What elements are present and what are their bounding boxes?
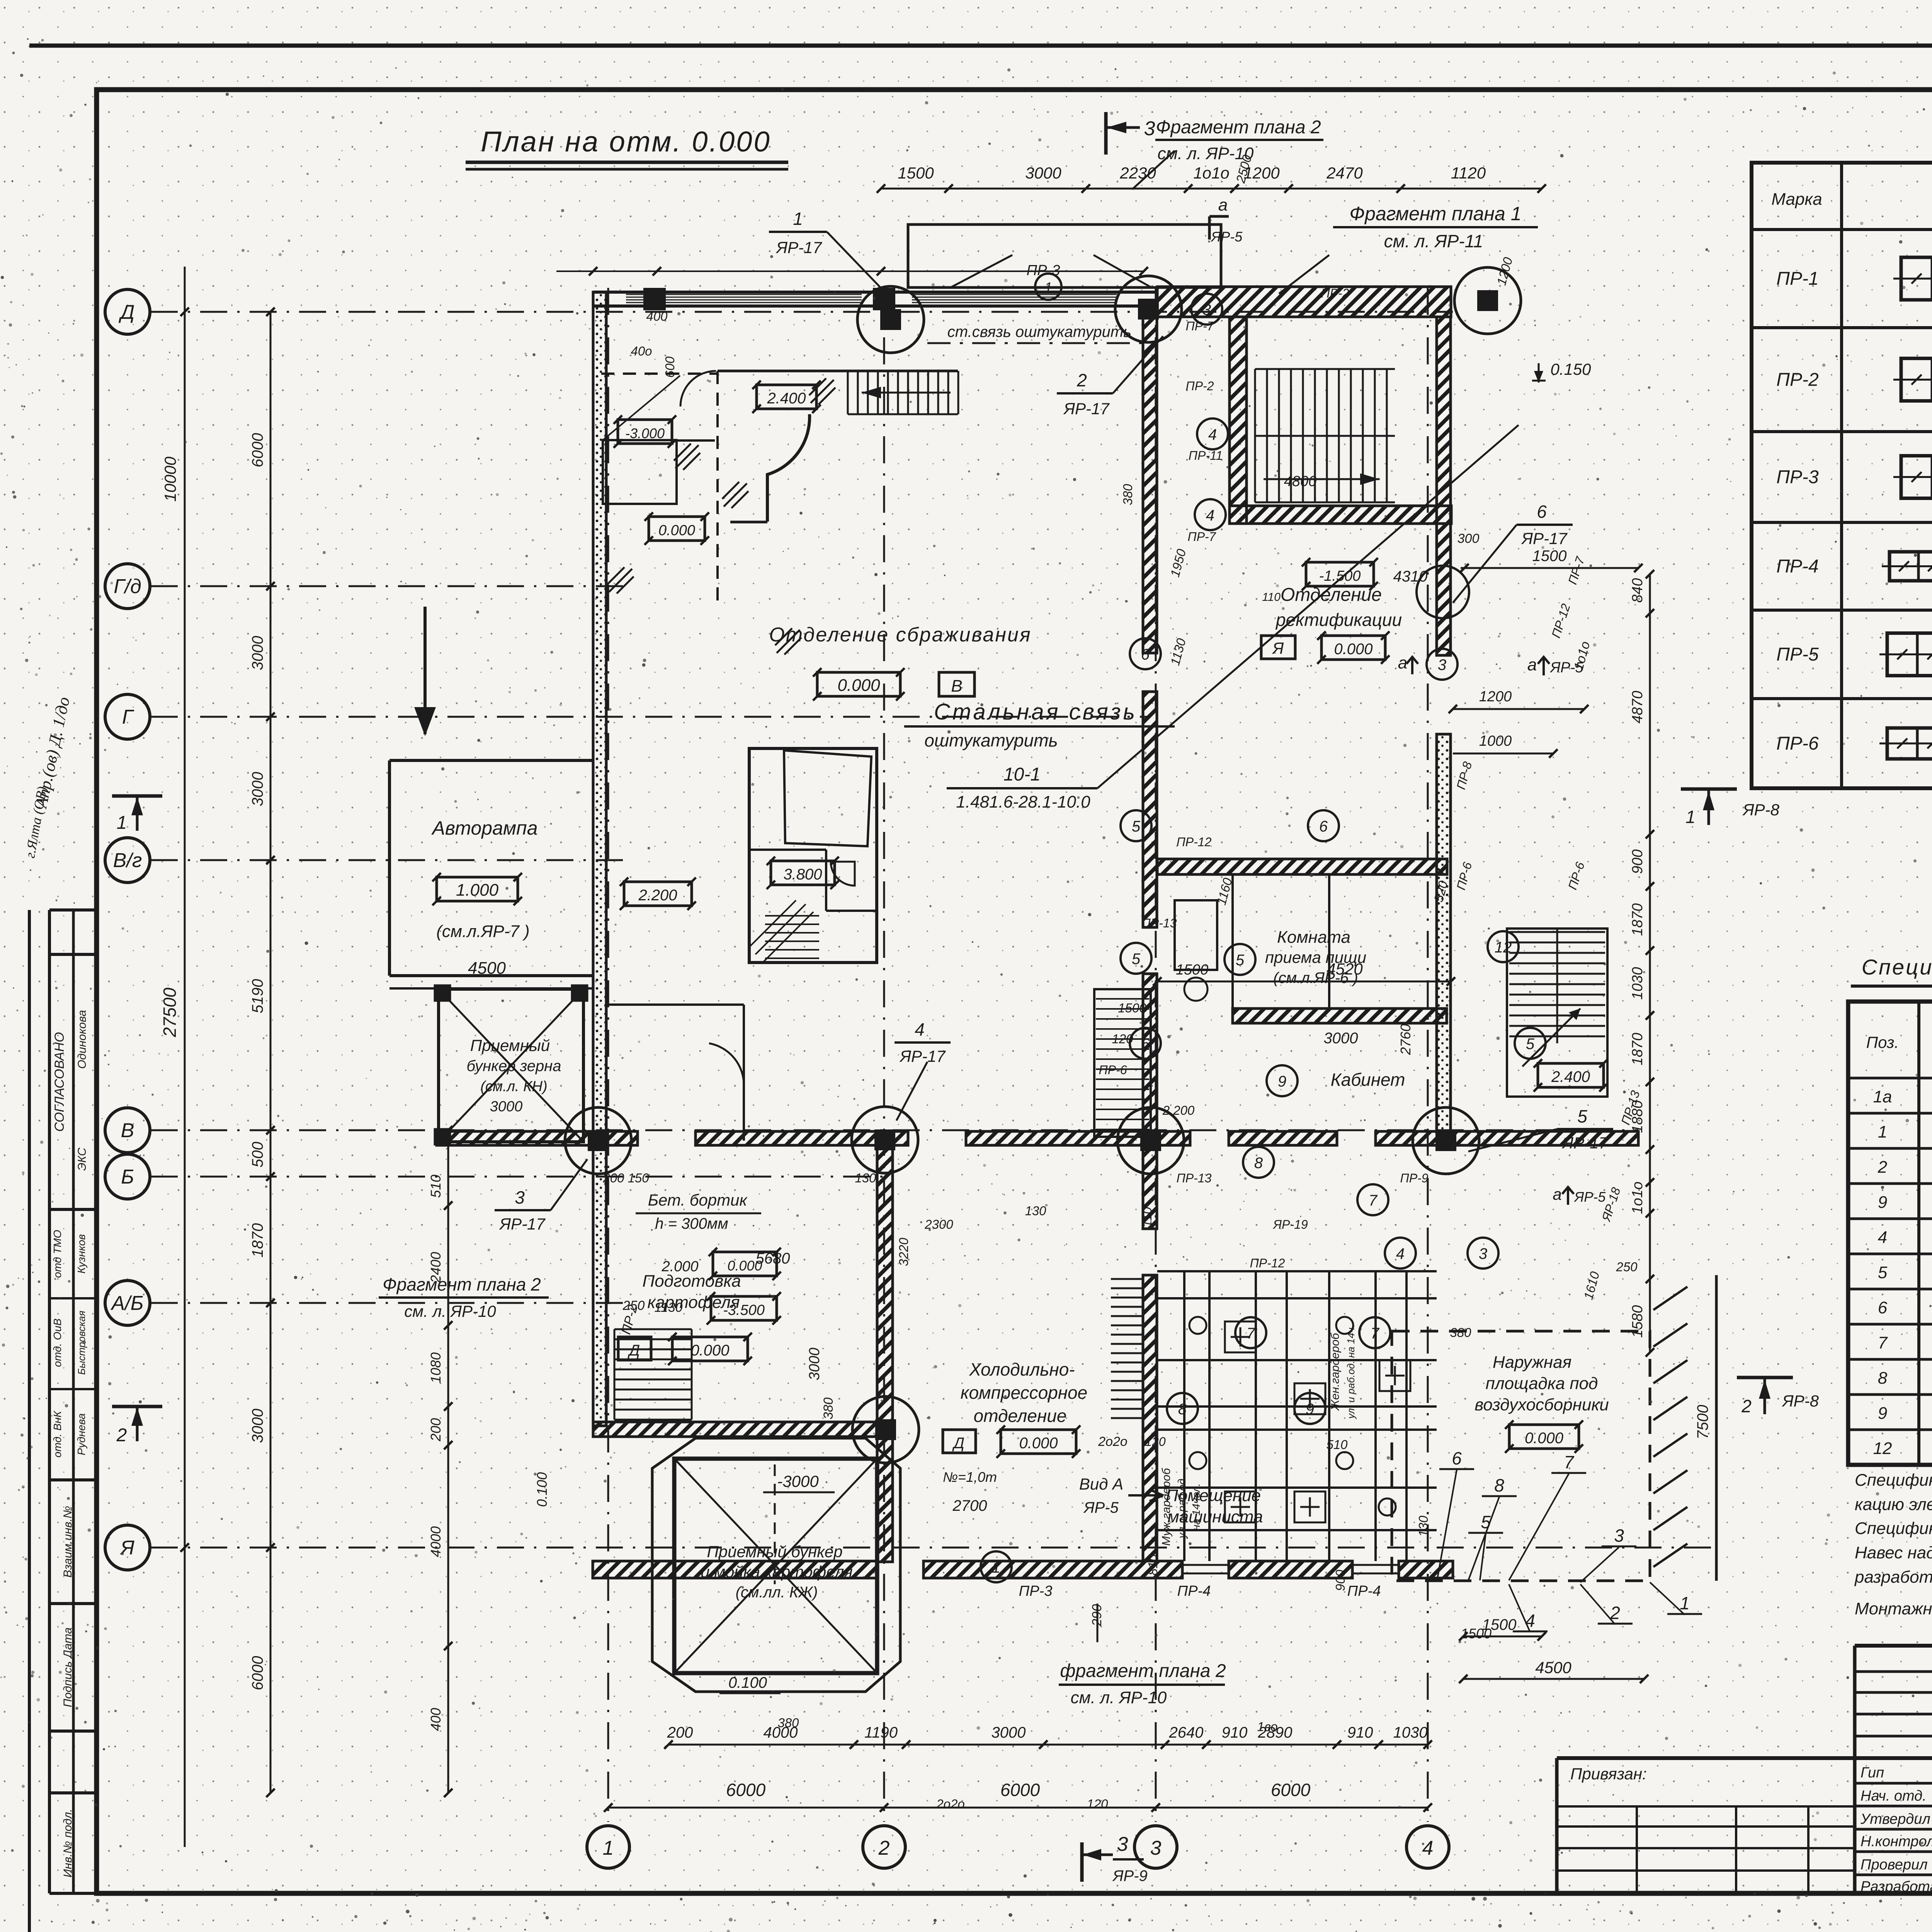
svg-text:130: 130 <box>1416 1515 1430 1537</box>
svg-text:4: 4 <box>915 1019 925 1039</box>
level box 2.400 (right stair) <box>1534 1059 1608 1092</box>
svg-text:6000: 6000 <box>249 1656 266 1690</box>
level box -3.000 <box>614 415 676 448</box>
bottom 1500 dim <box>1459 1616 1546 1641</box>
svg-text:5: 5 <box>1577 1106 1587 1126</box>
svg-text:разработан на листах марки: разработан на листах марки КМ. <box>1854 1568 1932 1587</box>
svg-text:200 150: 200 150 <box>602 1171 649 1185</box>
entrance canopy <box>908 224 1221 300</box>
svg-text:-3.500: -3.500 <box>723 1302 765 1318</box>
svg-text:1580: 1580 <box>1629 1305 1646 1338</box>
svg-text:2о2о: 2о2о <box>936 1797 964 1811</box>
svg-text:Фрагмент плана 2: Фрагмент плана 2 <box>383 1274 541 1294</box>
svg-text:-1.500: -1.500 <box>1319 568 1361 584</box>
small circled reference numbers <box>981 294 1546 1582</box>
svg-text:-3.000: -3.000 <box>625 425 665 441</box>
stamp rotated labels <box>51 1010 88 1878</box>
level mark 0.150 <box>1532 360 1591 383</box>
potato bunker outline <box>652 1438 900 1692</box>
svg-text:1.000: 1.000 <box>456 881 499 900</box>
room letter Я box <box>1261 636 1295 659</box>
svg-text:4310: 4310 <box>1393 568 1428 585</box>
svg-text:380: 380 <box>821 1398 836 1420</box>
svg-text:ПР-2: ПР-2 <box>1186 379 1214 393</box>
svg-text:ПР-6: ПР-6 <box>1776 733 1819 754</box>
svg-text:6: 6 <box>1452 1448 1462 1468</box>
svg-text:(см.л.ЯР-7 ): (см.л.ЯР-7 ) <box>436 922 529 941</box>
svg-text:120: 120 <box>1145 1435 1166 1449</box>
svg-text:В: В <box>121 1119 134 1142</box>
dims 1200 1000 right of plan <box>1449 689 1588 891</box>
detail circles at wall junctions <box>565 267 1521 1463</box>
locker fixtures <box>1189 1317 1410 1522</box>
level box 2.200 <box>620 878 696 910</box>
svg-text:3: 3 <box>1479 1245 1487 1262</box>
svg-text:1во: 1во <box>1257 1719 1277 1734</box>
svg-text:h = 300мм: h = 300мм <box>655 1215 728 1232</box>
svg-text:380: 380 <box>777 1716 799 1730</box>
svg-text:120: 120 <box>1087 1797 1108 1811</box>
svg-text:Д: Д <box>628 1342 640 1359</box>
stairwell top wall <box>1157 287 1451 317</box>
svg-text:ЯР-5: ЯР-5 <box>1574 1189 1606 1205</box>
svg-text:ПР-3: ПР-3 <box>1019 1583 1053 1599</box>
svg-text:Жен.гардероб: Жен.гардероб <box>1329 1333 1342 1412</box>
fragment plan 2 label (bottom) <box>1059 1661 1226 1707</box>
svg-text:Приемный: Приемный <box>470 1036 550 1054</box>
svg-text:9: 9 <box>1278 1073 1286 1090</box>
scattered small dims <box>602 153 1638 1811</box>
dim 1500 right of stairwell <box>1460 548 1643 572</box>
svg-text:7: 7 <box>1369 1192 1378 1209</box>
steel tie note (big) <box>904 699 1175 750</box>
refrigeration notes <box>943 1469 1163 1516</box>
svg-text:ПР-7: ПР-7 <box>1188 530 1216 544</box>
svg-text:Гип: Гип <box>1861 1765 1884 1781</box>
marker a ЯР-5 (lower) <box>1553 1185 1606 1205</box>
svg-text:Спецификацию гардеробного об: Спецификацию гардеробного оборудования с… <box>1855 1471 1932 1490</box>
svg-text:1120: 1120 <box>1451 164 1486 182</box>
svg-text:6000: 6000 <box>726 1780 766 1800</box>
title block: revision table <box>1855 1646 1932 1758</box>
svg-text:2.400: 2.400 <box>1551 1068 1590 1085</box>
svg-text:5: 5 <box>1132 818 1141 835</box>
svg-text:Руднева: Руднева <box>75 1413 87 1456</box>
svg-text:0.100: 0.100 <box>728 1674 767 1691</box>
axis circle 3 (bottom) <box>1134 1826 1177 1868</box>
svg-text:400: 400 <box>646 309 668 323</box>
svg-text:Утвердил: Утвердил <box>1860 1811 1930 1827</box>
section marker 2 ЯР-8 <box>1737 1378 1819 1416</box>
svg-text:10-1: 10-1 <box>1003 764 1041 785</box>
section marker 3 (top) <box>1106 112 1155 155</box>
top-left room block <box>601 371 958 603</box>
svg-text:воздухосборники: воздухосборники <box>1475 1395 1609 1414</box>
svg-text:ЯР-17: ЯР-17 <box>1521 529 1568 548</box>
svg-text:компрессорное: компрессорное <box>961 1383 1087 1403</box>
svg-text:7500: 7500 <box>1694 1405 1711 1439</box>
plan title <box>466 126 788 169</box>
locker block partitions <box>1157 1271 1437 1561</box>
svg-text:1870: 1870 <box>1629 903 1646 936</box>
section marker 1 ЯР-8 <box>1681 789 1780 827</box>
title block: names table <box>1855 1758 1932 1895</box>
svg-text:1: 1 <box>603 1837 614 1859</box>
svg-text:оштукатурить: оштукатурить <box>924 730 1058 750</box>
svg-text:6: 6 <box>1319 818 1328 835</box>
svg-text:-3000: -3000 <box>777 1472 819 1490</box>
svg-text:3000: 3000 <box>249 772 266 806</box>
room label: potato prep <box>642 1272 741 1312</box>
svg-text:Г/д: Г/д <box>114 575 141 598</box>
svg-text:1: 1 <box>1685 807 1696 827</box>
svg-text:1: 1 <box>793 209 803 229</box>
svg-text:Вид А: Вид А <box>1079 1475 1123 1493</box>
svg-text:900: 900 <box>1629 849 1646 874</box>
svg-text:3: 3 <box>1144 117 1155 140</box>
svg-text:0.000: 0.000 <box>1525 1430 1563 1447</box>
svg-text:0.000: 0.000 <box>690 1342 729 1359</box>
svg-text:3: 3 <box>515 1187 525 1207</box>
left exterior wall <box>593 292 606 1141</box>
svg-text:3: 3 <box>1438 656 1446 673</box>
svg-text:Я: Я <box>119 1537 134 1559</box>
dining room top wall <box>1157 859 1447 874</box>
svg-text:4500: 4500 <box>1535 1658 1571 1677</box>
specification table <box>1848 1002 1932 1465</box>
svg-text:Авторампа: Авторампа <box>431 817 538 839</box>
svg-text:8: 8 <box>1254 1155 1263 1172</box>
svg-text:Инв.№ подл.: Инв.№ подл. <box>61 1809 74 1878</box>
svg-text:Наружная: Наружная <box>1493 1353 1571 1372</box>
axis circle Д <box>105 289 150 334</box>
svg-text:Поз.: Поз. <box>1866 1033 1899 1051</box>
svg-text:1: 1 <box>117 813 127 833</box>
svg-text:6: 6 <box>1141 1036 1150 1053</box>
svg-text:Разработал: Разработал <box>1861 1879 1932 1895</box>
svg-text:ПР-7: ПР-7 <box>1186 319 1214 333</box>
left outer dimension line <box>160 267 189 1847</box>
svg-text:Подпись Дата: Подпись Дата <box>61 1628 74 1707</box>
partition line below hall <box>607 1003 744 1006</box>
svg-text:3: 3 <box>1150 1837 1162 1859</box>
paper left edge line <box>28 910 31 1932</box>
svg-text:1500: 1500 <box>1176 962 1209 978</box>
axis circle 1 (bottom) <box>587 1826 629 1868</box>
svg-text:8: 8 <box>1494 1475 1504 1495</box>
svg-text:0.000: 0.000 <box>837 676 880 695</box>
paper top edge line <box>29 44 1932 48</box>
svg-text:810: 810 <box>1146 1554 1160 1576</box>
autoramp outline <box>389 760 593 988</box>
svg-text:1: 1 <box>1878 1122 1887 1141</box>
svg-text:6000: 6000 <box>1000 1780 1040 1800</box>
bottom-left stair <box>614 1329 692 1420</box>
lab small stair <box>750 900 819 962</box>
svg-text:Монтажные схемы окон и кре: Монтажные схемы окон и крепежные элемент… <box>1855 1599 1932 1618</box>
svg-text:300: 300 <box>1458 531 1480 546</box>
hatch cross marks <box>607 378 835 655</box>
room label: refrigeration <box>961 1359 1087 1426</box>
level box 1.000 autoramp <box>432 873 522 905</box>
bottom dimension chain (axes) <box>604 1780 1432 1812</box>
title block outline <box>1557 1646 1932 1893</box>
platform hatch strip <box>1653 1275 1716 1581</box>
callout 4 ЯР-17 <box>895 1019 951 1121</box>
svg-text:1500: 1500 <box>1482 1616 1517 1633</box>
right exterior wall upper <box>1437 317 1451 655</box>
dims 4520/1500 <box>1153 960 1455 1055</box>
svg-text:СОГЛАСОВАНО: СОГЛАСОВАНО <box>52 1032 67 1132</box>
svg-text:А/Б: А/Б <box>111 1292 144 1315</box>
svg-text:9: 9 <box>1306 1401 1314 1418</box>
svg-text:ПР-13: ПР-13 <box>1177 1171 1212 1185</box>
svg-text:Взаим.инв.№: Взаим.инв.№ <box>61 1506 74 1578</box>
axis-B wall <box>437 1131 1638 1145</box>
svg-text:Спецификацию перемычек см.: Спецификацию перемычек см. л. ЯР-5 <box>1855 1519 1932 1538</box>
axis-A bottom wall <box>593 1561 1453 1578</box>
svg-text:0.000: 0.000 <box>658 522 695 539</box>
svg-text:Б: Б <box>121 1166 134 1188</box>
svg-text:2700: 2700 <box>952 1497 987 1514</box>
svg-text:№=1,0т: №=1,0т <box>943 1469 997 1485</box>
svg-text:ЯР-8: ЯР-8 <box>1782 1392 1819 1410</box>
svg-text:Фрагмент плана 2: Фрагмент плана 2 <box>1156 117 1321 138</box>
section marker 1 (left) <box>112 796 162 833</box>
callout 3 ЯР-17 <box>495 1159 587 1233</box>
svg-text:27500: 27500 <box>160 988 180 1037</box>
svg-text:3.800: 3.800 <box>783 866 822 883</box>
svg-text:отд ТМО: отд ТМО <box>51 1230 63 1278</box>
svg-text:3: 3 <box>1202 301 1211 318</box>
svg-text:510: 510 <box>1326 1437 1348 1452</box>
svg-text:0.150: 0.150 <box>1550 360 1591 378</box>
room label: autoramp <box>431 817 538 839</box>
svg-text:4: 4 <box>1878 1228 1887 1247</box>
svg-text:7: 7 <box>1564 1452 1574 1472</box>
axis circle Б <box>105 1154 150 1199</box>
svg-text:5190: 5190 <box>249 979 266 1014</box>
svg-text:а: а <box>1527 655 1537 674</box>
potato prep level boxes <box>618 1333 752 1365</box>
svg-text:8: 8 <box>1178 1401 1187 1418</box>
svg-text:ПР-2: ПР-2 <box>1776 370 1818 390</box>
svg-text:Проверил: Проверил <box>1861 1857 1928 1873</box>
svg-text:1500: 1500 <box>1532 548 1567 565</box>
svg-text:4: 4 <box>1208 426 1217 443</box>
stairwell stairs <box>1255 369 1395 502</box>
svg-text:Комната: Комната <box>1277 928 1350 947</box>
svg-text:Д: Д <box>952 1435 964 1452</box>
bottom 4500 dim <box>1459 1658 1648 1683</box>
steel tie note (top) <box>927 323 1151 343</box>
platform level box <box>1505 1420 1583 1453</box>
stairwell walls <box>1230 317 1451 524</box>
svg-text:3000: 3000 <box>249 1409 266 1443</box>
svg-text:2о2о: 2о2о <box>1098 1434 1128 1449</box>
svg-text:см. л. ЯР-11: см. л. ЯР-11 <box>1384 231 1483 251</box>
svg-text:3: 3 <box>1117 1833 1128 1855</box>
svg-text:380: 380 <box>1450 1325 1471 1340</box>
svg-text:на 14чел.: на 14чел. <box>1190 1483 1202 1531</box>
stair left of axis-3 <box>1094 989 1151 1137</box>
svg-text:1870: 1870 <box>1629 1033 1646 1066</box>
svg-text:3000: 3000 <box>490 1099 523 1115</box>
svg-text:2760: 2760 <box>1398 1024 1413 1055</box>
svg-text:130: 130 <box>855 1171 876 1185</box>
svg-text:250: 250 <box>1616 1260 1638 1274</box>
svg-text:4: 4 <box>1525 1611 1535 1631</box>
svg-text:1030: 1030 <box>1393 1724 1428 1741</box>
svg-text:ЯР-17: ЯР-17 <box>776 238 822 257</box>
svg-text:ПР-4: ПР-4 <box>1347 1583 1381 1599</box>
svg-text:5: 5 <box>1132 951 1141 968</box>
svg-text:Д: Д <box>119 301 135 323</box>
svg-text:Фрагмент плана 1: Фрагмент плана 1 <box>1349 203 1521 224</box>
ПР micro labels <box>1099 286 1643 1270</box>
svg-text:400: 400 <box>428 1708 444 1731</box>
svg-text:отд. ВнК: отд. ВнК <box>51 1410 63 1458</box>
svg-text:отделение: отделение <box>974 1406 1067 1426</box>
svg-text:В/г: В/г <box>113 849 142 872</box>
svg-text:1: 1 <box>1044 279 1052 295</box>
locker rotated labels <box>1160 1325 1357 1546</box>
svg-text:а: а <box>1553 1185 1561 1203</box>
svg-text:ЭКС: ЭКС <box>76 1148 88 1171</box>
svg-text:5680: 5680 <box>756 1250 790 1267</box>
svg-text:3: 3 <box>1614 1526 1624 1546</box>
axis circle 4 (bottom) <box>1406 1826 1449 1868</box>
svg-text:фрагмент плана 2: фрагмент плана 2 <box>1060 1661 1226 1681</box>
level box 3.800 <box>767 857 839 889</box>
svg-text:10000: 10000 <box>161 456 179 502</box>
svg-text:40о: 40о <box>631 344 652 358</box>
svg-text:3220: 3220 <box>896 1238 911 1266</box>
svg-text:ПР-11: ПР-11 <box>1189 449 1223 463</box>
svg-text:130: 130 <box>1025 1204 1046 1218</box>
potato bunker levels <box>534 1472 835 1693</box>
svg-text:1: 1 <box>1680 1593 1690 1613</box>
svg-text:Кабинет: Кабинет <box>1331 1070 1405 1090</box>
svg-text:1000: 1000 <box>1479 733 1512 749</box>
svg-text:Нач. отд.: Нач. отд. <box>1861 1788 1927 1804</box>
svg-text:7: 7 <box>1878 1333 1888 1352</box>
svg-text:ЯР-17: ЯР-17 <box>1063 400 1110 418</box>
bottom dimension chain (detail) <box>664 1724 1432 1749</box>
svg-text:4: 4 <box>1206 507 1214 524</box>
svg-text:ул. и раб.од. на 14ч.: ул. и раб.од. на 14ч. <box>1345 1325 1357 1419</box>
svg-text:Привязан:: Привязан: <box>1570 1765 1647 1783</box>
svg-text:2: 2 <box>1077 370 1087 390</box>
svg-text:ПР-2: ПР-2 <box>1321 286 1349 300</box>
top-left stair <box>848 371 958 414</box>
level box 2.400 <box>752 381 821 413</box>
svg-text:5: 5 <box>1878 1263 1888 1282</box>
svg-text:2.200: 2.200 <box>638 887 677 904</box>
svg-text:2: 2 <box>1878 1158 1887 1177</box>
callout 6 ЯР-17 <box>1417 502 1573 618</box>
svg-text:ЯР-8: ЯР-8 <box>1742 801 1780 819</box>
svg-text:500: 500 <box>249 1142 266 1168</box>
room label: dining room <box>1265 928 1366 986</box>
svg-text:Марка: Марка <box>1771 190 1822 209</box>
left wall lower (potato prep) <box>593 1145 606 1426</box>
svg-text:ст.связь оштукатурить: ст.связь оштукатурить <box>947 323 1131 340</box>
svg-text:3000: 3000 <box>249 636 266 670</box>
top dimension chain <box>877 164 1546 193</box>
svg-text:ПР-12: ПР-12 <box>1250 1256 1285 1270</box>
svg-text:2300: 2300 <box>924 1217 953 1231</box>
top exterior wall <box>556 267 1157 309</box>
svg-text:4870: 4870 <box>1629 691 1646 724</box>
svg-text:Отделение сбраживания: Отделение сбраживания <box>769 624 1031 646</box>
svg-text:отд. ОиВ: отд. ОиВ <box>51 1318 63 1367</box>
level box 0.000 (top-left) <box>645 512 709 545</box>
svg-text:см. л. ЯР-10: см. л. ЯР-10 <box>1071 1688 1167 1707</box>
axis circle В <box>105 1108 150 1153</box>
svg-text:площадка под: площадка под <box>1486 1374 1598 1393</box>
svg-text:ЯР-17: ЯР-17 <box>899 1047 946 1065</box>
room label: grain bunker <box>466 1036 561 1115</box>
section marker 2 (left) <box>112 1406 162 1446</box>
svg-text:Бет. бортик: Бет. бортик <box>648 1191 748 1209</box>
grain bunker square <box>435 985 587 1145</box>
svg-text:План на отм. 0.000: План на отм. 0.000 <box>481 126 771 158</box>
svg-text:4800: 4800 <box>1284 473 1317 490</box>
svg-text:4000: 4000 <box>428 1526 444 1557</box>
svg-text:7: 7 <box>1371 1325 1380 1342</box>
left margin stamp table <box>49 910 97 1893</box>
svg-text:2.400: 2.400 <box>767 390 806 407</box>
svg-text:а: а <box>1218 196 1228 214</box>
svg-text:1: 1 <box>992 1559 1000 1576</box>
svg-text:0.000: 0.000 <box>1334 641 1372 658</box>
svg-text:Г: Г <box>122 706 134 728</box>
level box -1.500 and 4310 dim <box>1262 558 1427 604</box>
room letter B box <box>939 672 975 696</box>
svg-text:ЯР-5: ЯР-5 <box>1083 1499 1119 1516</box>
svg-text:910: 910 <box>1347 1724 1373 1741</box>
marker a ЯР-5 (top) <box>1209 196 1243 245</box>
mid room block (lab) <box>749 748 877 963</box>
svg-text:6: 6 <box>1141 646 1150 663</box>
level box 0.000 fermentation <box>813 668 905 701</box>
room label: outdoor platform <box>1475 1353 1609 1414</box>
svg-text:ЯР-9: ЯР-9 <box>1112 1867 1148 1884</box>
svg-text:2.000: 2.000 <box>661 1259 698 1275</box>
fragment plan 2 label (left) <box>379 1274 549 1320</box>
axis circle В/г <box>105 838 150 883</box>
svg-text:ПР-1: ПР-1 <box>1776 269 1818 289</box>
vertical axis lines <box>608 288 1428 1822</box>
svg-text:4: 4 <box>1396 1245 1405 1262</box>
notes below specification <box>1854 1471 1932 1618</box>
svg-text:9: 9 <box>1878 1193 1887 1212</box>
wall between prep and refrigeration <box>877 1145 893 1562</box>
svg-text:12: 12 <box>1873 1439 1892 1458</box>
svg-text:ПР-3: ПР-3 <box>1776 467 1819 488</box>
svg-text:ПР-13: ПР-13 <box>1142 916 1177 930</box>
svg-text:110: 110 <box>1140 1207 1154 1227</box>
svg-text:2470: 2470 <box>1326 164 1363 182</box>
svg-text:3000: 3000 <box>1324 1030 1358 1047</box>
svg-text:2: 2 <box>1741 1396 1752 1416</box>
svg-text:840: 840 <box>1629 578 1646 602</box>
svg-text:2: 2 <box>878 1837 890 1859</box>
svg-text:510: 510 <box>428 1175 444 1198</box>
svg-text:2640: 2640 <box>1169 1724 1204 1741</box>
svg-text:6000: 6000 <box>1271 1780 1311 1800</box>
